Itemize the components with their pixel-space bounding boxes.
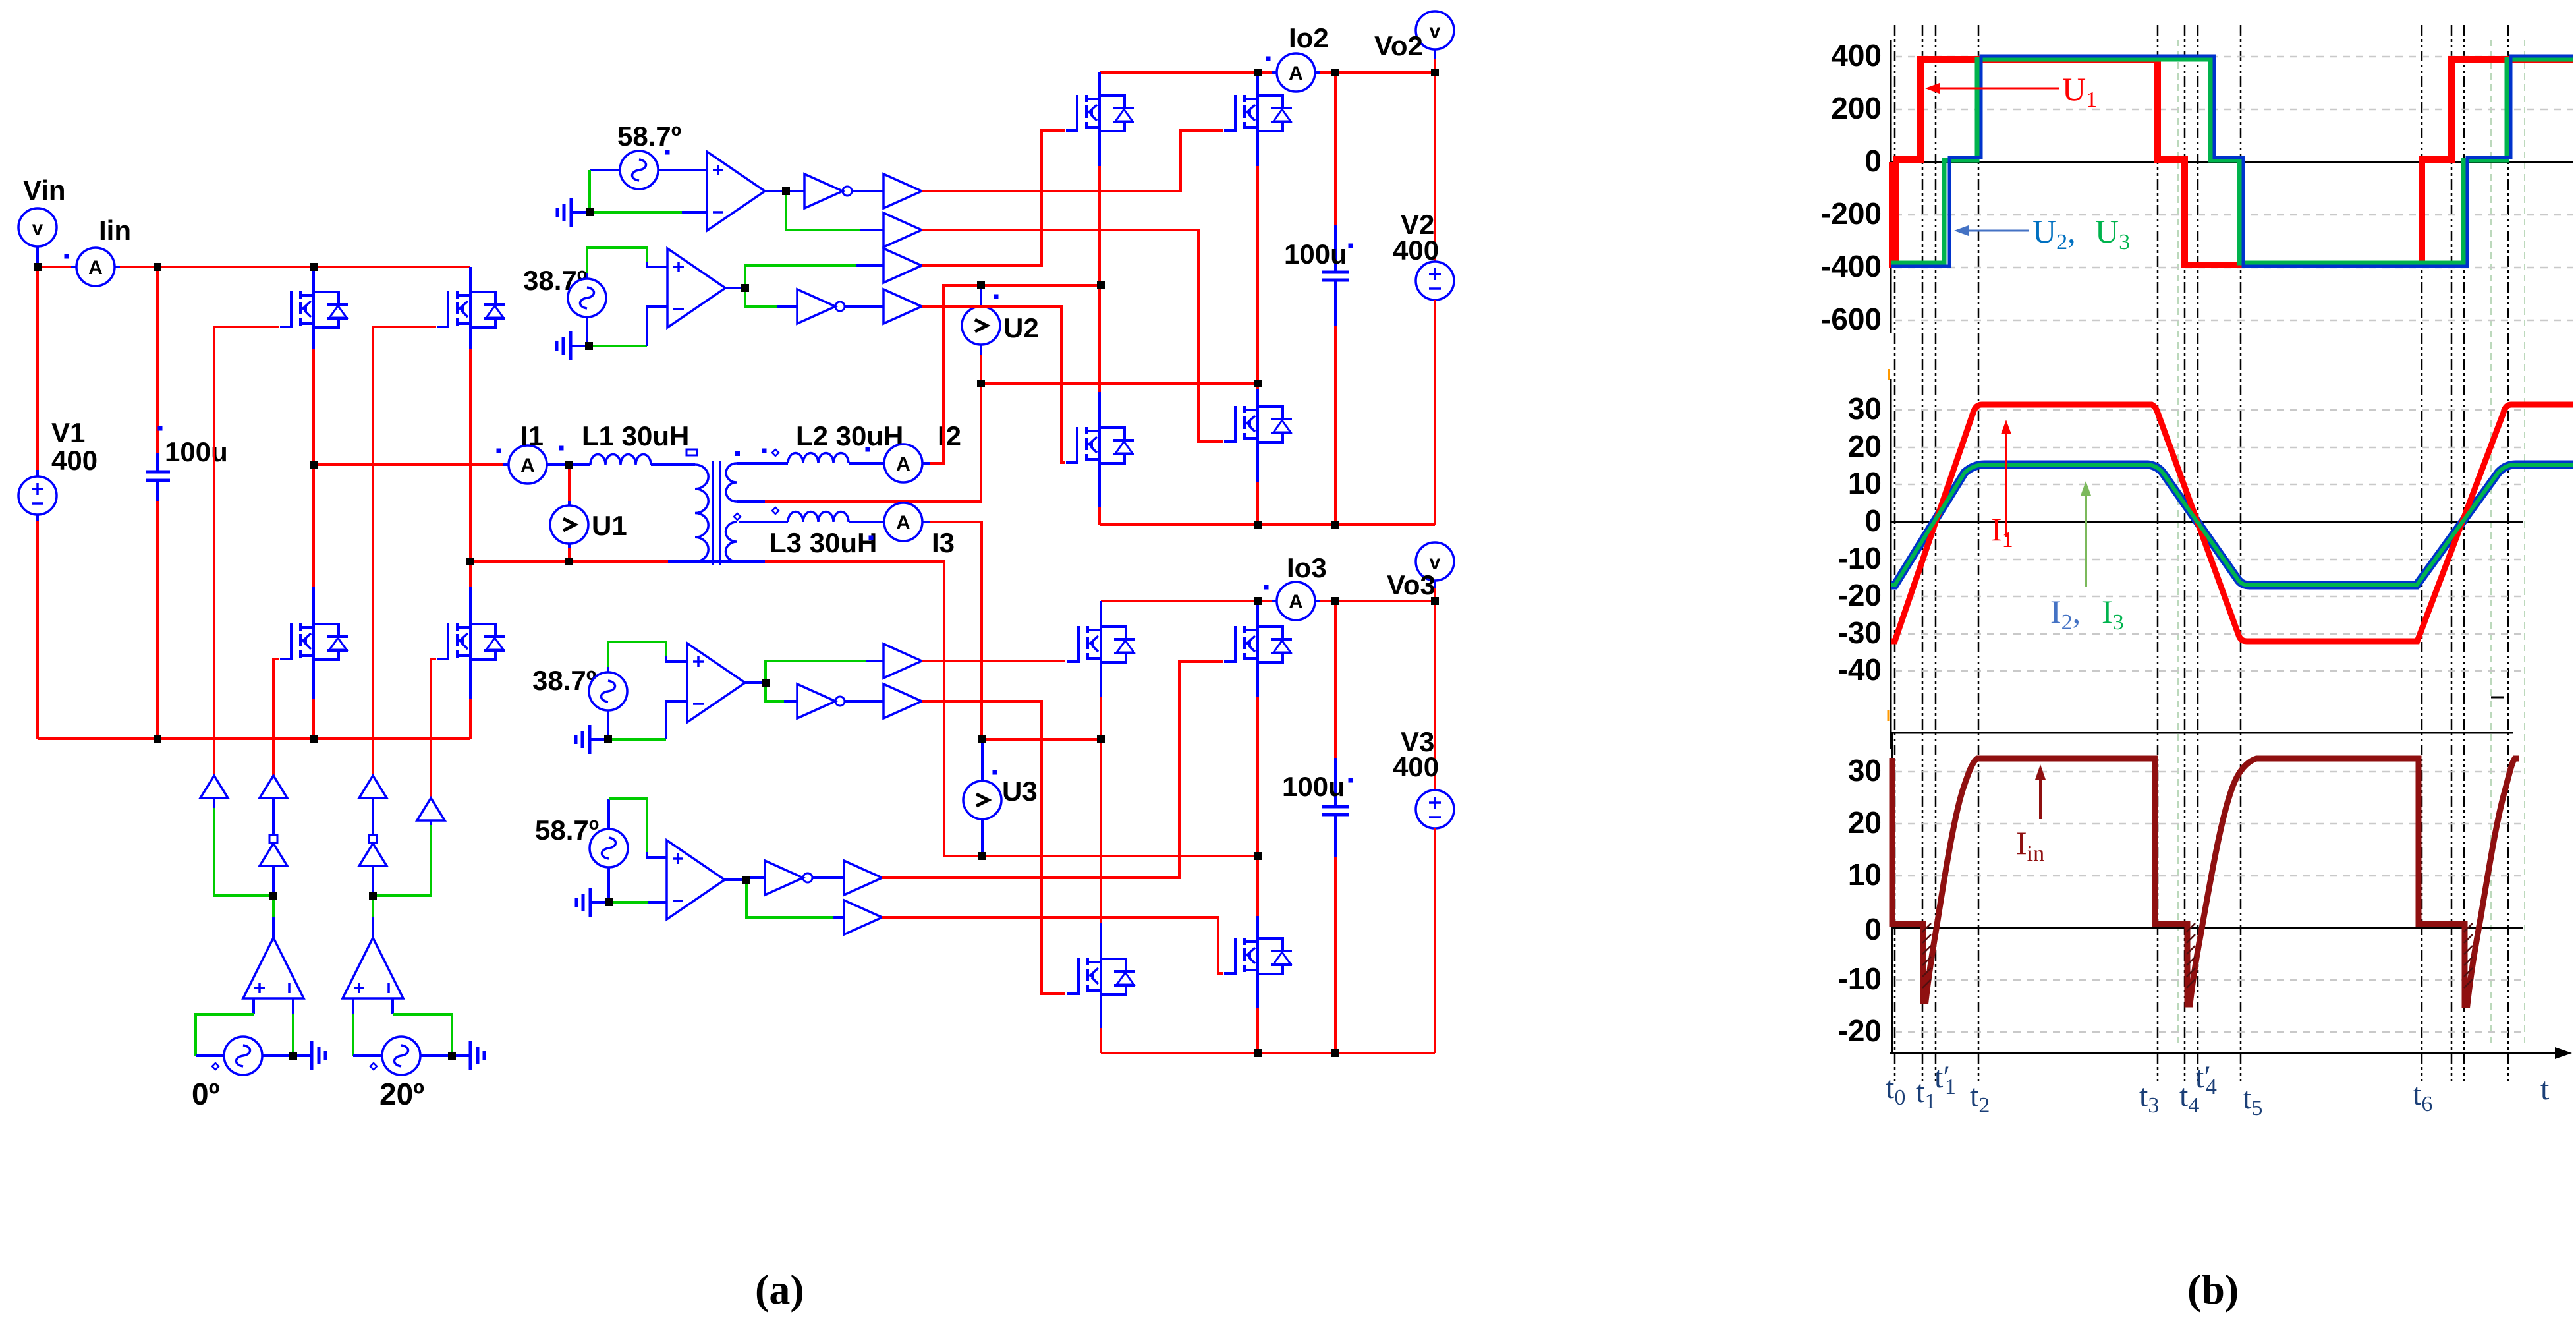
node chain2 out bbox=[741, 284, 749, 292]
svg-text:20: 20 bbox=[1848, 805, 1882, 840]
svg-text:L1 30uH: L1 30uH bbox=[582, 420, 689, 451]
wire chain3 upper branch bbox=[766, 661, 866, 683]
wire U1 bottom lead bbox=[568, 544, 571, 548]
wire chain2 sine top lead bbox=[586, 273, 588, 279]
transistor Q4 (input leg2 bottom) (MOSFET with body diode) bbox=[437, 623, 505, 661]
plot1 horizontal gridlines bbox=[1895, 57, 2573, 320]
node cap bottom bbox=[154, 735, 161, 743]
inverter N2 bbox=[359, 835, 387, 866]
inverter chain2 bbox=[797, 289, 845, 324]
wire input top rail bbox=[120, 266, 470, 268]
wire chain4 inverter to buffer bbox=[812, 876, 844, 879]
transistor Q7 (port2 legA bottom) (MOSFET with body diode) bbox=[1066, 426, 1134, 465]
buffer chain4 upper bbox=[844, 861, 882, 895]
wire port2 top rail bbox=[1100, 71, 1272, 74]
op-amp U7 (chain4 comparator) bbox=[667, 840, 725, 919]
svg-text:0º: 0º bbox=[192, 1077, 220, 1111]
wire chain3 ground to minus bbox=[608, 738, 666, 741]
voltmeter Vin bbox=[18, 208, 57, 246]
wire chain1 opamp output bbox=[765, 190, 804, 192]
node port3 rail B bbox=[1254, 597, 1262, 605]
wire U9 plus lead bbox=[352, 998, 354, 1014]
plot3 horizontal gridlines bbox=[1895, 772, 2523, 1032]
annotation arrow Iin bbox=[2035, 764, 2046, 819]
svg-text:-200: -200 bbox=[1821, 196, 1882, 231]
svg-text:-20: -20 bbox=[1838, 578, 1882, 612]
svg-text:-30: -30 bbox=[1838, 616, 1882, 650]
wire chain4 lower output to Q12 gate bbox=[882, 917, 1223, 973]
node chain4 gnd bbox=[605, 898, 613, 906]
transistor Q10 (port3 legB top) (MOSFET with body diode) bbox=[1224, 625, 1292, 664]
wire port2 legA mid upper bbox=[1098, 131, 1101, 166]
svg-text:L3 30uH: L3 30uH bbox=[770, 527, 877, 558]
capacitor C3 100u (port3) bbox=[1322, 601, 1349, 1053]
node 20deg drive bbox=[369, 892, 377, 900]
buffer chain2 upper bbox=[883, 248, 922, 283]
wire Io2 right lead bbox=[1315, 71, 1320, 74]
wire chain3 sine top lead bbox=[607, 667, 609, 672]
ammeter Io2 bbox=[1277, 53, 1315, 92]
annotation arrow U2 U3 bbox=[1954, 225, 2029, 236]
wire winding3 bottom to port3 legB mid bbox=[765, 561, 1258, 856]
wire chain3 lower output to Q11 gate bbox=[922, 701, 1065, 994]
node chain4 out bbox=[742, 876, 750, 884]
wire chain1 lower branch bbox=[786, 191, 860, 230]
transistor Q12 (port3 legB bottom) (MOSFET with body diode) bbox=[1224, 937, 1292, 975]
wire B2 input bbox=[272, 798, 275, 834]
svg-text:v: v bbox=[32, 217, 43, 239]
svg-text:100u: 100u bbox=[1284, 239, 1347, 270]
wire chain1 ground to minus input bbox=[590, 211, 682, 214]
svg-text:-40: -40 bbox=[1838, 652, 1882, 687]
wire leg2 drain bbox=[469, 267, 472, 292]
wire port2 legA source bbox=[1098, 463, 1101, 507]
node B (leg2 mid) bbox=[466, 558, 474, 565]
transformer winding 3 bbox=[726, 522, 737, 561]
buffer chain1 upper bbox=[883, 174, 922, 208]
svg-text:-400: -400 bbox=[1821, 249, 1882, 283]
wire gate Q3 to inverter chain bbox=[373, 327, 436, 776]
waveform U3 (green) bbox=[1891, 59, 2573, 263]
annotation arrow I2 I3 bbox=[2081, 481, 2091, 587]
transformer winding 2 bbox=[726, 463, 737, 502]
node port2 cap top bbox=[1331, 69, 1339, 76]
transformer primary winding bbox=[695, 465, 708, 561]
node leg1 drain bbox=[310, 263, 318, 271]
node cap top bbox=[154, 263, 161, 271]
svg-text:A: A bbox=[896, 453, 910, 475]
svg-text:U3: U3 bbox=[1002, 776, 1038, 807]
wire leg1 source bbox=[312, 660, 315, 699]
capacitor C1 100u bbox=[146, 267, 170, 739]
ground chain4 bbox=[576, 888, 609, 917]
op-amp U4 (chain1 comparator) bbox=[707, 152, 765, 231]
svg-text:100u: 100u bbox=[1282, 771, 1345, 802]
capacitor C2 100u (port2) bbox=[1322, 72, 1349, 525]
svg-text:400: 400 bbox=[1831, 38, 1882, 72]
transistor Q6 (port2 legB top) (MOSFET with body diode) bbox=[1224, 94, 1292, 132]
svg-text:0: 0 bbox=[1864, 503, 1882, 538]
wire port3 legA mid upper bbox=[1100, 662, 1102, 697]
sine source 38.7deg (chain2) bbox=[568, 279, 606, 317]
waveform Iin (dark red) bbox=[1892, 758, 2519, 1005]
wire I2 to port2 bbox=[922, 462, 930, 465]
plot3 y axis bbox=[1891, 733, 1893, 1053]
inductor L3 30uH bbox=[788, 511, 849, 522]
op-amp U6 (chain3 comparator) bbox=[687, 643, 745, 722]
transformer TX1 (3 windings) bbox=[713, 461, 720, 565]
ammeter Iin bbox=[76, 248, 115, 286]
svg-text:100u: 100u bbox=[165, 436, 228, 467]
svg-text:A: A bbox=[88, 257, 103, 279]
wire chain2 opamp output bbox=[725, 287, 745, 289]
svg-text:Vin: Vin bbox=[23, 175, 66, 206]
svg-text:58.7º: 58.7º bbox=[617, 121, 681, 152]
node port2 rail B- bbox=[1254, 521, 1262, 529]
wire port3 legB drain bbox=[1256, 601, 1259, 627]
node A (leg1 mid) bbox=[310, 461, 318, 469]
wire leg1 drain bbox=[312, 267, 315, 292]
wire chain3 sine bottom lead bbox=[607, 710, 609, 739]
plot3 zero axis bbox=[1891, 927, 2523, 929]
wire node to B4 bbox=[373, 825, 431, 896]
svg-text:400: 400 bbox=[1393, 751, 1439, 782]
waveform I1 (red) bbox=[1891, 405, 2573, 641]
wire V3 top bbox=[1434, 601, 1436, 790]
buffer chain2 lower bbox=[883, 289, 922, 324]
node U1 top bbox=[565, 461, 573, 469]
svg-text:I2: I2 bbox=[938, 420, 961, 451]
wire chain4 lower branch bbox=[746, 880, 833, 917]
svg-text:-10: -10 bbox=[1838, 961, 1882, 996]
svg-text:U2: U2 bbox=[1003, 312, 1039, 343]
voltage probe U2 bbox=[962, 306, 1000, 345]
wire chain2 inverter to buffer bbox=[845, 305, 883, 308]
svg-text:58.7º: 58.7º bbox=[535, 815, 599, 846]
wire L2 to I2 bbox=[849, 462, 884, 465]
svg-text:t: t bbox=[2540, 1072, 2550, 1106]
node 0deg gnd bbox=[289, 1052, 297, 1060]
wire B1 input bbox=[213, 798, 215, 808]
node port3 cap bottom bbox=[1331, 1049, 1339, 1057]
annotation arrow U1 bbox=[1925, 83, 2059, 94]
node port3 legA mid bbox=[1097, 735, 1105, 743]
op-amp U9 (20deg comparator) bbox=[343, 938, 403, 998]
wire Vo3 lead bbox=[1434, 581, 1436, 588]
wire chain3 lower branch bbox=[766, 683, 784, 701]
sine source 58.7deg (chain1) bbox=[620, 151, 658, 189]
plot3 top frame bbox=[1890, 732, 2513, 734]
inductor L2 30uH bbox=[788, 453, 849, 463]
wire chain4 sine bottom lead bbox=[607, 867, 610, 902]
node port3 cap top bbox=[1331, 597, 1339, 605]
wire port3 legB mid upper bbox=[1256, 662, 1259, 697]
svg-text:Vo3: Vo3 bbox=[1387, 569, 1436, 600]
buffer B1 bbox=[200, 776, 228, 798]
buffer B4 bbox=[417, 798, 445, 820]
wire chain4 ground to minus bbox=[609, 901, 648, 904]
wire gate Q4 to buffer B4 bbox=[431, 659, 436, 798]
wire chain1 upper output to Q6 gate bbox=[922, 130, 1223, 191]
node Vo2 bbox=[1431, 69, 1439, 76]
svg-text:30: 30 bbox=[1848, 753, 1882, 788]
svg-text:(a): (a) bbox=[755, 1266, 804, 1313]
sine source 38.7deg (chain3) bbox=[589, 672, 627, 710]
node port2 legB mid bbox=[1254, 380, 1262, 387]
wire port3 top rail bbox=[1101, 600, 1272, 602]
node chain1 out bbox=[782, 187, 790, 195]
wire port3 legA source bbox=[1100, 994, 1102, 1028]
wire winding2 top to L2 bbox=[737, 462, 788, 465]
wire gate Q1 to buffer B1 bbox=[214, 327, 279, 776]
svg-text:Iin: Iin bbox=[99, 215, 131, 246]
transistor Q11 (port3 legA bottom) (MOSFET with body diode) bbox=[1067, 958, 1135, 996]
svg-text:20º: 20º bbox=[379, 1077, 424, 1111]
ground 0deg bbox=[293, 1041, 325, 1070]
transistor Q5 (port2 legA top) (MOSFET with body diode) bbox=[1066, 94, 1134, 132]
voltage probe U3 bbox=[963, 781, 1001, 819]
svg-text:-20: -20 bbox=[1838, 1014, 1882, 1048]
wire chain1 sine to plus input bbox=[658, 169, 707, 171]
wire U9 minus lead bbox=[391, 998, 394, 1014]
wire U1 top lead bbox=[568, 465, 571, 501]
node 0deg drive bbox=[269, 892, 277, 900]
svg-text:U2,: U2, bbox=[2032, 213, 2076, 254]
ground 20deg bbox=[452, 1041, 484, 1070]
svg-text:38.7º: 38.7º bbox=[532, 665, 596, 696]
wire chain3 inverter to buffer bbox=[845, 700, 883, 703]
node port3 rail B- bbox=[1254, 1049, 1262, 1057]
plot2 axis end tick bbox=[2491, 697, 2504, 699]
wire I1 to L1 bbox=[547, 463, 590, 466]
wire port2 legB source bbox=[1256, 442, 1259, 482]
node Vo3 bbox=[1431, 597, 1439, 605]
wire L3 to I3 bbox=[849, 521, 884, 523]
transistor Q2 (input leg1 bottom) (MOSFET with body diode) bbox=[280, 623, 348, 661]
wire Io3 right lead bbox=[1315, 600, 1320, 602]
svg-text:I3: I3 bbox=[932, 527, 955, 558]
voltmeter Vo2 bbox=[1416, 11, 1454, 49]
wire chain2 lower branch bbox=[745, 288, 777, 306]
wire N1 input bbox=[272, 866, 275, 896]
svg-text:V1: V1 bbox=[51, 417, 85, 448]
wire U3 bottom lead bbox=[981, 819, 984, 856]
wire node to op-amp U8 bbox=[272, 896, 275, 917]
svg-text:0: 0 bbox=[1864, 912, 1882, 946]
plot2 horizontal gridlines bbox=[1895, 410, 2523, 671]
node U3 bottom bbox=[978, 852, 986, 860]
svg-text:30: 30 bbox=[1848, 391, 1882, 426]
Iin notch hatching bbox=[1922, 923, 2473, 988]
inductor L1 30uH bbox=[590, 454, 651, 465]
sine source 20deg bbox=[382, 1037, 420, 1075]
buffer B2 bbox=[260, 776, 287, 798]
buffer chain3 lower bbox=[883, 684, 922, 718]
node port2 legA mid bbox=[1097, 281, 1105, 289]
plot1 zero axis bbox=[1891, 161, 2573, 163]
buffer B3 bbox=[359, 776, 387, 798]
svg-text:400: 400 bbox=[51, 445, 98, 476]
wire U8 plus lead bbox=[252, 998, 255, 1014]
svg-text:20: 20 bbox=[1848, 429, 1882, 463]
svg-text:10: 10 bbox=[1848, 466, 1882, 500]
voltmeter Vo3 bbox=[1416, 542, 1454, 581]
svg-text:U1: U1 bbox=[592, 510, 627, 541]
node chain2 gnd bbox=[585, 342, 593, 350]
transistor Q1 (input leg1 top) (MOSFET with body diode) bbox=[280, 291, 348, 329]
wire chain1 sine left lead bbox=[590, 169, 620, 171]
wire Vo2 lead bbox=[1434, 49, 1436, 59]
wire chain4 sine top lead bbox=[607, 799, 610, 829]
svg-text:A: A bbox=[1289, 591, 1303, 613]
waveform U2 (blue) bbox=[1891, 56, 2573, 266]
op-amp U5 (chain2 comparator) bbox=[667, 248, 725, 328]
ground chain1 bbox=[557, 198, 590, 227]
node chain3 gnd bbox=[604, 735, 612, 743]
wire port2 legB mid upper bbox=[1256, 131, 1259, 166]
wire chain3 upper output to Q9 gate bbox=[922, 660, 1065, 662]
wire chain2 upper branch bbox=[745, 266, 856, 288]
node port2 rail B bbox=[1254, 69, 1262, 76]
buffer chain1 lower bbox=[883, 213, 922, 247]
node port2 cap bottom bbox=[1331, 521, 1339, 529]
inverter chain1 bbox=[804, 174, 852, 208]
transistor Q8 (port2 legB bottom) (MOSFET with body diode) bbox=[1224, 405, 1292, 444]
wire V2 top bbox=[1434, 72, 1436, 262]
svg-text:(b): (b) bbox=[2187, 1266, 2239, 1313]
wire chain2 ground to minus bbox=[589, 345, 647, 347]
wire node to op-amp U9 bbox=[372, 896, 374, 917]
inverter chain3 bbox=[797, 684, 845, 718]
wire port2 legB drain bbox=[1256, 72, 1259, 96]
wire leg1 mid to I1 bbox=[314, 463, 503, 466]
svg-text:I1: I1 bbox=[520, 420, 544, 451]
wire gate Q2 to inverter chain bbox=[273, 659, 279, 776]
buffer chain4 lower bbox=[844, 900, 882, 934]
node 20deg gnd bbox=[448, 1052, 456, 1060]
transistor Q9 (port3 legA top) (MOSFET with body diode) bbox=[1067, 625, 1135, 664]
plot3 x axis with arrow bbox=[1890, 1047, 2572, 1059]
wire input bottom bus bbox=[38, 737, 470, 740]
svg-text:L2 30uH: L2 30uH bbox=[796, 420, 903, 451]
wire L1 to transformer primary bbox=[651, 463, 695, 466]
svg-text:A: A bbox=[1289, 63, 1303, 84]
source V3 400V bbox=[1416, 790, 1454, 828]
voltage probe U1 bbox=[550, 505, 588, 544]
wire chain2 lower output to Q7 gate bbox=[922, 306, 1065, 463]
wire input rail left bbox=[38, 266, 71, 268]
wire I3 to port3 bbox=[922, 521, 930, 523]
wire chain4 opamp output bbox=[725, 878, 746, 881]
node U2 bottom bbox=[977, 380, 985, 387]
inverter N1 bbox=[260, 835, 287, 866]
wire N2 input bbox=[372, 866, 374, 896]
svg-text:Io3: Io3 bbox=[1287, 552, 1327, 583]
source V2 400V bbox=[1416, 262, 1454, 300]
node U1 bottom bbox=[565, 558, 573, 565]
wire U2 bottom to port2 legB mid bbox=[981, 382, 1258, 385]
wire U2 top lead bbox=[980, 285, 982, 306]
node chain1 gnd bbox=[586, 208, 594, 216]
wire U2 bottom lead bbox=[980, 345, 982, 355]
wire chain1 inverter to buffer bbox=[852, 190, 883, 192]
svg-text:0: 0 bbox=[1864, 144, 1882, 178]
wire 20deg source to ground node bbox=[420, 1054, 452, 1057]
wire chain2 upper output to Q5 gate bbox=[922, 130, 1065, 266]
wire transformer bottom rail bbox=[470, 560, 668, 563]
wire chain4 upper output to Q10 gate bbox=[882, 662, 1223, 878]
op-amp U8 (0deg comparator) bbox=[243, 938, 304, 998]
node input+ bbox=[34, 263, 42, 271]
sine source 58.7deg (chain4) bbox=[590, 829, 628, 867]
wire winding2 bottom bbox=[737, 500, 765, 503]
wire 0deg source to ground node bbox=[262, 1054, 293, 1057]
wire V1 top bbox=[36, 267, 39, 470]
svg-text:200: 200 bbox=[1831, 91, 1882, 125]
ammeter I2 bbox=[884, 444, 922, 482]
wire chain2 sine bottom lead bbox=[586, 317, 588, 346]
node leg1 source bbox=[310, 735, 318, 743]
svg-text:A: A bbox=[896, 512, 910, 534]
wire U3 top lead bbox=[981, 739, 984, 781]
sine source 0deg bbox=[224, 1037, 262, 1075]
node port3 legB mid bbox=[1254, 852, 1262, 860]
time grid dashed vertical lines t0..t bbox=[1895, 25, 2508, 1081]
wire winding3 top to L3 bbox=[739, 521, 788, 523]
wire V1 bottom bbox=[36, 515, 39, 521]
ammeter Io3 bbox=[1277, 582, 1315, 620]
node U3 top bbox=[978, 735, 986, 743]
ammeter I3 bbox=[884, 503, 922, 541]
source V1 400V bbox=[18, 476, 57, 515]
inverter chain4 bbox=[765, 861, 812, 895]
plot1 y axis bbox=[1890, 40, 1892, 333]
wire V3 bottom bbox=[1434, 828, 1436, 1053]
svg-text:400: 400 bbox=[1393, 235, 1439, 266]
annotation arrow I1 bbox=[2001, 420, 2011, 537]
plot2 zero axis bbox=[1891, 521, 2523, 523]
ground chain2 bbox=[557, 331, 589, 360]
wire Vin meter lead bbox=[36, 246, 39, 267]
svg-text:-10: -10 bbox=[1838, 541, 1882, 575]
faint green vertical gridlines bbox=[2178, 40, 2525, 1048]
wire Iin meter lead right bbox=[115, 266, 120, 268]
wire V2 bottom bbox=[1434, 300, 1436, 525]
wire leg2 source bbox=[469, 660, 472, 699]
wire chain1 lower output to Q8 gate bbox=[922, 230, 1223, 442]
svg-text:v: v bbox=[1430, 20, 1441, 42]
wire B3 input bbox=[372, 798, 374, 834]
wire port3 legB source bbox=[1256, 974, 1259, 1008]
wire port3 legA drain bbox=[1100, 601, 1102, 627]
ground chain3 bbox=[576, 725, 608, 754]
wire port2 bottom rail bbox=[1100, 523, 1435, 526]
buffer chain3 upper bbox=[883, 644, 922, 678]
waveform U1 (red) bbox=[1892, 59, 2573, 265]
svg-text:-600: -600 bbox=[1821, 302, 1882, 336]
ammeter I1 bbox=[509, 445, 547, 484]
transistor Q3 (input leg2 top) (MOSFET with body diode) bbox=[437, 291, 505, 329]
wire chain3 opamp output bbox=[745, 681, 766, 684]
svg-text:A: A bbox=[520, 455, 535, 476]
node chain3 out bbox=[762, 679, 770, 687]
waveform I3 green overlay bbox=[1891, 465, 2573, 585]
plot2 y axis bbox=[1890, 379, 1892, 749]
svg-text:Io2: Io2 bbox=[1289, 22, 1329, 53]
svg-text:10: 10 bbox=[1848, 857, 1882, 892]
wire port2 legA drain bbox=[1098, 72, 1101, 96]
wire leg1 mid upper bbox=[312, 328, 315, 349]
